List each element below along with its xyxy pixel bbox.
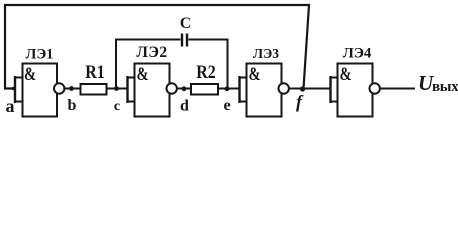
- svg-text:R1: R1: [85, 61, 104, 83]
- LE1 output inversion circle: [54, 83, 64, 93]
- wire feedback from node f to node a (top rail): [5, 5, 309, 89]
- svg-text:ЛЭ4: ЛЭ4: [343, 46, 372, 62]
- node a junction dot: [12, 87, 16, 91]
- wire LE3 output to LE4 input (node f): [289, 88, 331, 90]
- svg-text:ЛЭ1: ЛЭ1: [26, 47, 54, 63]
- LE4 input pin stub bottom: [331, 101, 338, 103]
- node b junction dot: [69, 86, 74, 91]
- logic element LE4 input tie bar: [329, 76, 331, 103]
- logic element LE3 input tie bar: [238, 76, 240, 103]
- wire LE2 output to R2: [177, 88, 191, 90]
- svg-text:c: c: [114, 99, 120, 114]
- LE2 input pin stub bottom: [128, 101, 135, 103]
- svg-text:вых: вых: [432, 79, 458, 95]
- logic element LE1 body: [23, 64, 58, 117]
- node e junction dot: [225, 86, 230, 91]
- LE3 input pin stub top: [240, 77, 247, 79]
- wire R1 to LE2 input (node c): [107, 88, 128, 90]
- LE4 output inversion circle: [370, 83, 380, 93]
- capacitor C right plate: [186, 34, 188, 47]
- svg-text:&: &: [24, 63, 36, 84]
- svg-text:R2: R2: [196, 61, 216, 83]
- svg-text:C: C: [180, 15, 191, 32]
- wire node c up and right to capacitor: [116, 40, 181, 89]
- LE3 output inversion circle: [279, 83, 289, 93]
- logic element LE2 body: [135, 64, 170, 117]
- svg-text:ЛЭ3: ЛЭ3: [253, 46, 279, 61]
- node d junction dot: [182, 86, 187, 91]
- output voltage label Uvyh: [418, 71, 458, 95]
- svg-text:d: d: [180, 98, 189, 115]
- LE4 input pin stub top: [331, 77, 338, 79]
- resistor R1: [81, 84, 107, 95]
- logic element LE3 body: [247, 64, 282, 117]
- svg-text:f: f: [296, 92, 304, 112]
- svg-text:&: &: [249, 63, 261, 84]
- wire R2 to LE3 input (node e): [218, 88, 240, 90]
- svg-text:&: &: [136, 63, 148, 84]
- svg-text:ЛЭ2: ЛЭ2: [136, 44, 167, 61]
- svg-text:a: a: [6, 96, 15, 116]
- wire LE4 output to Uvyh terminal: [380, 88, 415, 90]
- LE1 input pin stub top: [15, 77, 23, 79]
- logic element LE4 body: [338, 64, 373, 117]
- LE2 input pin stub top: [128, 77, 135, 79]
- LE3 input pin stub bottom: [240, 101, 247, 103]
- node f junction dot: [300, 86, 305, 91]
- node c junction dot: [114, 86, 119, 91]
- svg-text:e: e: [223, 97, 230, 114]
- LE1 input pin stub bottom: [15, 101, 23, 103]
- LE2 output inversion circle: [167, 83, 177, 93]
- logic element LE1 input tie bar: [14, 76, 16, 103]
- wire LE1 output to R1: [65, 88, 81, 90]
- svg-text:&: &: [339, 63, 351, 84]
- resistor R2: [191, 84, 218, 95]
- wire capacitor right to node e: [189, 40, 228, 89]
- logic element LE2 input tie bar: [126, 76, 128, 103]
- svg-text:b: b: [68, 97, 77, 114]
- capacitor C left plate: [181, 34, 183, 47]
